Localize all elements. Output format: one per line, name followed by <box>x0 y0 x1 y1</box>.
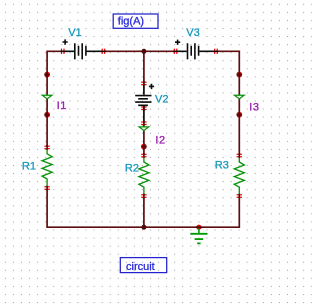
svg-text:R2: R2 <box>125 162 139 174</box>
battery V3 <box>177 43 214 59</box>
pin ticks V3 right <box>214 49 215 54</box>
pin ticks V1 left <box>61 49 62 54</box>
svg-text:V3: V3 <box>186 27 199 39</box>
annotation box circuit <box>120 258 166 273</box>
junction marker left rail lower <box>44 112 50 118</box>
wire top middle segment V1 to V3 <box>105 50 174 52</box>
svg-text:R1: R1 <box>22 161 36 173</box>
resistor R1 <box>42 150 52 186</box>
ground junction dot <box>196 225 202 230</box>
svg-text:R3: R3 <box>215 160 229 172</box>
plus sign V3 <box>175 40 180 45</box>
junction marker left rail upper <box>44 72 50 78</box>
svg-text:V2: V2 <box>155 93 168 105</box>
node junction dot middle branch at bottom wire <box>141 225 146 230</box>
pin ticks V2 top <box>141 82 146 83</box>
wire middle branch upper (node to V2) <box>143 51 145 81</box>
junction marker right rail lower <box>237 112 243 118</box>
pin ticks V2 bottom <box>141 106 146 107</box>
pin ticks R2 top <box>141 154 146 155</box>
svg-text:V1: V1 <box>68 27 81 39</box>
pin ticks V3 left <box>174 49 175 54</box>
battery V2 <box>135 86 151 122</box>
plus sign V1 <box>63 39 68 44</box>
svg-text:I3: I3 <box>249 101 259 113</box>
wire left rail lower + bottom segment <box>47 189 144 227</box>
pin ticks R3 top <box>237 154 242 155</box>
pin ticks I2 marker <box>141 121 146 122</box>
annotation box fig(A) <box>113 14 158 28</box>
pin ticks V1 right <box>102 49 103 54</box>
pin ticks R1 top <box>44 146 49 147</box>
plus sign V2 <box>149 84 154 89</box>
current marker I3 arrow <box>235 95 245 99</box>
svg-text:circuit: circuit <box>126 261 155 273</box>
pin ticks R1 bottom <box>44 186 49 187</box>
pin ticks R2 bottom <box>141 194 146 195</box>
wire middle branch R2 to bottom <box>143 197 145 227</box>
wire top-left corner loop (left rail upper + top-left segment) <box>47 51 61 146</box>
battery V1 <box>65 43 103 59</box>
junction marker middle branch <box>141 144 147 150</box>
junction marker right rail upper <box>237 72 243 78</box>
wire top-right corner (top segment + right rail upper) <box>217 51 239 154</box>
resistor R3 <box>234 158 244 194</box>
current marker I2 arrow <box>139 127 149 131</box>
node junction dot at top middle (V1/V3/V2 tee) <box>141 49 146 54</box>
current marker I1 arrow <box>42 95 52 99</box>
wire middle branch I2 to R2 <box>143 126 145 155</box>
ground symbol <box>190 229 207 244</box>
resistor R2 <box>139 158 149 194</box>
svg-text:fig(A): fig(A) <box>118 16 144 28</box>
wire bottom segment middle to right + right rail lower <box>144 197 239 227</box>
svg-text:I1: I1 <box>57 100 67 112</box>
svg-text:I2: I2 <box>155 134 165 146</box>
pin ticks R3 bottom <box>237 194 242 195</box>
